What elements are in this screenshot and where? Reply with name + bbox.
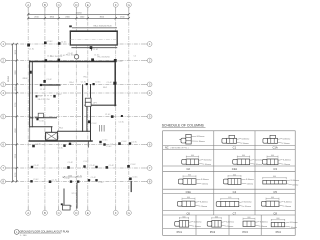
svg-text:10mmø: 10mmø	[285, 206, 292, 208]
svg-text:8-16mmø: 8-16mmø	[194, 221, 203, 223]
schedule cell PC2	[207, 216, 235, 228]
svg-text:8-16mmø: 8-16mmø	[242, 138, 251, 140]
column mark G/5	[119, 115, 125, 124]
svg-text:8-16mmø: 8-16mmø	[246, 179, 255, 181]
schedule cell C2A	[233, 155, 264, 166]
grid line G (vertical)	[128, 8, 130, 210]
beam label FB-1 350X250	[98, 57, 110, 59]
beam label 250	[47, 99, 50, 101]
svg-text:C1 4C: C1 4C	[58, 147, 64, 149]
leader dash row4	[38, 95, 53, 97]
column mark D/6a	[58, 145, 66, 150]
svg-text:8-16mmø: 8-16mmø	[200, 201, 209, 203]
step stub below bottom wall	[87, 142, 89, 148]
grid line D (vertical)	[75, 8, 77, 210]
column mark C/4	[53, 94, 62, 98]
grid line C (vertical)	[58, 8, 60, 210]
schedule caption C3A	[186, 190, 191, 194]
column mark E/5	[88, 120, 97, 125]
grid bubble 7 right	[147, 166, 152, 171]
schedule cell NC	[179, 134, 205, 144]
column mark C/1	[58, 42, 67, 45]
column mark D/2	[68, 53, 79, 59]
svg-text:600: 600	[183, 216, 186, 218]
svg-text:A: A	[27, 211, 29, 215]
porch wall bottom	[64, 205, 71, 207]
wall along grid E interior	[90, 85, 92, 142]
svg-text:C4: C4	[233, 190, 237, 194]
interior wall y117 right part	[35, 117, 56, 119]
grid bubble 3 left	[1, 82, 6, 87]
wall bottom of main block	[29, 140, 92, 142]
column mark E/6b	[103, 143, 112, 148]
bubble stems right	[145, 44, 148, 182]
grid bubble B top	[42, 2, 47, 7]
svg-text:C2A: C2A	[232, 167, 237, 171]
column mark G/6	[129, 141, 138, 144]
column mark B/2	[45, 56, 53, 62]
svg-text:21950: 21950	[8, 75, 10, 82]
grid bubble A top	[26, 2, 31, 7]
svg-text:8-16mmø: 8-16mmø	[260, 221, 269, 223]
svg-text:10mmø: 10mmø	[247, 184, 254, 186]
svg-text:8-16mmø: 8-16mmø	[283, 138, 292, 140]
svg-text:C1 4C: C1 4C	[33, 179, 39, 181]
grid line 2 (horizontal)	[6, 60, 147, 62]
svg-text:C8: C8	[273, 211, 277, 215]
svg-text:C1 4C: C1 4C	[46, 79, 52, 81]
wall left lower link	[29, 127, 31, 141]
svg-text:FB-2 350X250: FB-2 350X250	[66, 54, 78, 56]
svg-text:C1 4C: C1 4C	[109, 165, 115, 167]
svg-text:10mmø: 10mmø	[284, 164, 291, 166]
grid bubble G bottom	[126, 210, 131, 215]
svg-text:PC3: PC3	[242, 230, 248, 234]
wall left inner face	[31, 62, 33, 127]
grid bubble 3 right	[147, 82, 152, 87]
svg-text:RB-1 350X200 RCB: RB-1 350X200 RCB	[94, 26, 113, 28]
svg-text:C1 4C: C1 4C	[106, 146, 112, 148]
bubble stems bottom	[28, 206, 129, 211]
svg-text:ST-1: ST-1	[72, 193, 76, 195]
bubble stems left	[6, 44, 18, 182]
grid line A (vertical)	[27, 8, 29, 210]
grid bubble 8 right	[147, 179, 152, 184]
svg-text:C3: C3	[273, 167, 277, 171]
svg-text:C1 4C: C1 4C	[39, 121, 45, 123]
grid line B (vertical)	[44, 8, 46, 210]
interior wall x51 stub	[51, 127, 53, 133]
svg-text:8-16mmø: 8-16mmø	[284, 201, 293, 203]
svg-text:C1 4C: C1 4C	[47, 41, 53, 43]
column mark D/7	[67, 162, 73, 169]
interior wall y126	[30, 126, 52, 128]
porch wall left	[63, 189, 65, 206]
svg-text:C1 4C: C1 4C	[29, 49, 35, 51]
svg-text:FB-5: FB-5	[84, 77, 88, 79]
grid line E (vertical)	[87, 8, 89, 210]
svg-text:600: 600	[273, 176, 276, 178]
svg-text:FB-1 350X250: FB-1 350X250	[98, 57, 110, 59]
grid line 3 (horizontal)	[6, 83, 147, 85]
wall right of main block (grid F)	[114, 61, 116, 106]
svg-text:C1 4C: C1 4C	[119, 122, 125, 124]
svg-text:C1 4C: C1 4C	[83, 161, 89, 163]
svg-text:F: F	[115, 211, 117, 215]
svg-text:C7: C7	[233, 211, 237, 215]
svg-text:10mmø: 10mmø	[205, 164, 212, 166]
column mark E/7	[90, 165, 98, 168]
svg-text:C1 4C: C1 4C	[81, 82, 87, 84]
schedule caption PC1	[177, 230, 183, 234]
grid bubble G top	[126, 2, 131, 7]
column mark E/8a	[88, 177, 97, 182]
column mark E/3b	[93, 82, 102, 86]
svg-text:10mmø: 10mmø	[284, 143, 291, 145]
svg-text:8-16mmø: 8-16mmø	[197, 136, 206, 138]
grid bubble C bottom	[56, 210, 61, 215]
svg-text:FB-1 350X250: FB-1 350X250	[50, 56, 62, 58]
schedule cell C2	[182, 155, 213, 166]
svg-text:C1 4C: C1 4C	[90, 165, 96, 167]
column mark B/5	[36, 118, 45, 123]
svg-text:C1 4C: C1 4C	[91, 123, 97, 125]
schedule caption C7	[233, 211, 237, 215]
shaft box lower	[85, 102, 91, 106]
column mark A/1	[27, 44, 35, 51]
svg-text:C1 4C: C1 4C	[130, 164, 136, 166]
column mark B/8	[30, 179, 39, 182]
column mark D/6b	[69, 142, 78, 145]
svg-text:1 : 100: 1 : 100	[20, 235, 27, 237]
schedule cell C4	[223, 174, 254, 185]
svg-text:C1 4C: C1 4C	[34, 165, 40, 167]
svg-text:F: F	[115, 3, 117, 7]
svg-text:600: 600	[187, 197, 190, 199]
svg-text:10mmø: 10mmø	[256, 164, 263, 166]
svg-text:8-16mmø: 8-16mmø	[201, 179, 210, 181]
svg-text:600: 600	[248, 217, 251, 219]
schedule cell PC1	[175, 216, 203, 228]
porch wall right	[76, 183, 78, 208]
svg-text:8-16mmø: 8-16mmø	[291, 180, 300, 182]
svg-text:C1 4C: C1 4C	[98, 182, 104, 184]
bubble stems top	[28, 7, 129, 19]
wall left outer face	[29, 61, 31, 127]
svg-text:C1 4C: C1 4C	[68, 162, 74, 164]
column mark F/3	[107, 82, 117, 85]
svg-text:8-16mmø: 8-16mmø	[283, 159, 292, 161]
porch step box	[63, 205, 71, 210]
schedule cell C7	[216, 197, 252, 208]
svg-text:C1 4C: C1 4C	[56, 94, 62, 96]
svg-text:10mmø: 10mmø	[261, 226, 268, 228]
svg-text:C1 4C: C1 4C	[91, 177, 97, 179]
column mark F/7	[106, 165, 115, 169]
svg-text:C1 4C: C1 4C	[77, 175, 83, 177]
schedule cell PC3	[243, 217, 269, 228]
svg-text:10mmø: 10mmø	[291, 227, 298, 229]
column mark E/3a	[81, 82, 88, 86]
schedule cell C6	[177, 197, 208, 208]
beam label RB-1 above roof slab	[69, 25, 117, 27]
grid bubble B bottom	[42, 210, 47, 215]
wall at lift room bottom	[85, 104, 116, 106]
svg-text:C1A: C1A	[272, 146, 277, 150]
schedule caption C2	[186, 167, 190, 171]
grid bubble E bottom	[85, 210, 90, 215]
schedule caption C1	[233, 146, 237, 150]
grid line F (vertical)	[115, 8, 117, 210]
svg-text:10mmø: 10mmø	[245, 206, 252, 208]
column mark D/7b	[83, 161, 89, 168]
svg-text:A: A	[27, 3, 29, 7]
schedule caption PC3	[242, 230, 248, 234]
svg-text:FB-4: FB-4	[70, 82, 74, 84]
grid bubble A bottom	[26, 210, 31, 215]
svg-text:600: 600	[233, 174, 236, 176]
stair wall x87	[86, 106, 88, 131]
svg-text:600: 600	[191, 155, 194, 157]
schedule cell C3	[262, 155, 291, 166]
column mark E/1	[90, 46, 99, 51]
svg-text:600: 600	[188, 175, 191, 177]
schedule title	[162, 123, 206, 127]
column mark F/2	[114, 59, 123, 63]
svg-text:B: B	[44, 3, 46, 7]
grid bubble 2 left	[1, 58, 6, 63]
svg-text:FB-2 350: FB-2 350	[38, 99, 46, 101]
plan title bubble	[14, 230, 19, 235]
grid bubble E top	[85, 2, 90, 7]
schedule caption C3	[273, 167, 277, 171]
svg-text:600: 600	[242, 155, 245, 157]
column mark C/2	[58, 55, 66, 62]
small box on wall y117	[38, 113, 43, 117]
interior wall y131	[58, 130, 91, 132]
plan title text	[20, 230, 70, 236]
wall stub grid G below row 8	[130, 182, 132, 192]
svg-text:C1 4C: C1 4C	[64, 178, 70, 180]
svg-text:C5: C5	[273, 190, 277, 194]
svg-text:C1 4C: C1 4C	[61, 42, 67, 44]
svg-text:C1 4C: C1 4C	[102, 140, 108, 142]
schedule cell C1	[222, 135, 250, 145]
grid bubble 1 left	[1, 42, 6, 47]
grid bubble D bottom	[74, 210, 79, 215]
svg-text:8-16mmø: 8-16mmø	[204, 159, 213, 161]
svg-text:E: E	[87, 211, 89, 215]
schedule caption C5	[273, 190, 277, 194]
schedule caption C6	[186, 211, 190, 215]
svg-text:600: 600	[277, 218, 280, 220]
schedule caption NC	[165, 146, 189, 149]
svg-text:C1 4C: C1 4C	[72, 142, 78, 144]
column mark E/8b	[95, 179, 104, 184]
beam label FB-2	[59, 128, 63, 130]
svg-text:10mmø: 10mmø	[199, 141, 206, 143]
left segment dimension line	[15, 43, 18, 183]
svg-text:C1 4C: C1 4C	[105, 114, 111, 116]
svg-text:FB-2: FB-2	[103, 87, 107, 89]
svg-text:C2: C2	[23, 78, 25, 80]
svg-text:C1: C1	[111, 144, 113, 146]
svg-text:NC: NC	[165, 146, 169, 149]
left overall dimension line	[8, 43, 14, 183]
beam label FB-2	[103, 87, 107, 89]
grid bubble 5 right	[147, 114, 152, 119]
grid bubble 8 left	[1, 179, 6, 184]
svg-text:PC1: PC1	[177, 230, 183, 234]
wall top of main block	[30, 61, 116, 63]
svg-text:B: B	[44, 211, 46, 215]
schedule caption PC4	[276, 230, 282, 234]
grid line 6 (horizontal)	[6, 144, 147, 146]
column mark E/6	[99, 140, 108, 144]
svg-text:C1 4C: C1 4C	[95, 82, 101, 84]
grid bubble 7 left	[1, 166, 6, 171]
svg-text:C3A: C3A	[186, 190, 191, 194]
schedule caption C1A	[272, 146, 277, 150]
svg-text:600: 600	[271, 155, 274, 157]
grid line 8 (horizontal)	[6, 181, 147, 183]
grid bubble F bottom	[113, 210, 118, 215]
svg-text:C1 4C: C1 4C	[93, 49, 99, 51]
schedule caption C2A	[232, 167, 237, 171]
svg-text:8-16mmø: 8-16mmø	[226, 221, 235, 223]
grid line 1 (horizontal)	[6, 43, 147, 45]
svg-text:C1 4C: C1 4C	[132, 141, 138, 143]
beam label LIFT	[93, 103, 98, 105]
svg-text:10mmø: 10mmø	[243, 143, 250, 145]
column mark A/3	[22, 71, 31, 80]
grid bubble 4 left	[1, 91, 6, 96]
svg-text:10mmø: 10mmø	[195, 226, 202, 228]
grid line 7 (horizontal)	[6, 167, 147, 169]
svg-text:10mmø: 10mmø	[202, 184, 209, 186]
interior wall x82	[82, 85, 84, 131]
schedule caption C4	[233, 190, 237, 194]
svg-text:PC2: PC2	[210, 230, 216, 234]
grid bubble 5 left	[1, 114, 6, 119]
svg-text:10mmø: 10mmø	[292, 184, 299, 186]
grid bubble F top	[113, 2, 118, 7]
schedule caption PC2	[210, 230, 216, 234]
beam label FB-5	[84, 77, 88, 79]
column mark A/4	[36, 95, 43, 97]
beam label FB-1 350X250	[50, 56, 62, 58]
grid bubble 6 right	[147, 142, 152, 147]
top overall dimension line	[27, 12, 130, 15]
column mark B/3	[43, 79, 52, 83]
beam label C2	[134, 56, 136, 58]
grid bubble 4 right	[147, 91, 152, 96]
svg-text:8-16mmø: 8-16mmø	[244, 202, 253, 204]
svg-text:C6: C6	[186, 211, 190, 215]
column mark F/5	[105, 114, 114, 118]
svg-text:C1 4C: C1 4C	[40, 89, 46, 91]
column mark B/1	[44, 41, 53, 44]
svg-text:C1 4C: C1 4C	[36, 143, 42, 145]
door step marks near grid E bottom wall	[100, 125, 105, 132]
svg-text:C1 4C: C1 4C	[52, 179, 58, 181]
grid line 5 (horizontal)	[6, 116, 147, 118]
interior wall row 3	[41, 84, 60, 86]
svg-text:PC4: PC4	[276, 230, 282, 234]
svg-text:8-16mmø: 8-16mmø	[290, 222, 299, 224]
svg-text:C1 4C: C1 4C	[117, 61, 123, 63]
column mark E/2	[91, 54, 100, 61]
grid bubble C top	[56, 2, 61, 7]
svg-text:C1: C1	[233, 146, 237, 150]
grid bubble 2 right	[147, 58, 152, 63]
column mark J/3	[40, 84, 46, 91]
porch dimension line	[62, 175, 82, 178]
svg-text:10mmø: 10mmø	[201, 206, 208, 208]
stub below column E/1	[90, 48, 92, 50]
schedule cell C5	[263, 176, 300, 186]
beam label FB-2 350X250	[66, 54, 78, 56]
beam label FB-2 350	[38, 99, 46, 101]
column mark G/8	[129, 176, 138, 180]
column mark C/8	[49, 179, 58, 183]
column mark G/7	[127, 164, 136, 168]
porch side tick	[61, 203, 63, 205]
beam label C1	[111, 144, 113, 146]
grid bubble D top	[74, 2, 79, 7]
svg-text:C1 4C: C1 4C	[107, 82, 113, 84]
svg-text:C2: C2	[186, 167, 190, 171]
schedule cell C1A	[263, 135, 291, 145]
svg-text:16150: 16150	[75, 12, 82, 14]
beam label ST-1	[72, 193, 76, 195]
stair box with cross	[46, 132, 58, 140]
schedule cell C8	[261, 197, 292, 208]
top segment dimension line	[27, 17, 130, 20]
svg-text:C1 4C: C1 4C	[132, 176, 138, 178]
svg-text:C1 4C: C1 4C	[37, 95, 43, 97]
schedule caption C8	[273, 211, 277, 215]
schedule cell C3A	[178, 175, 209, 186]
svg-text:FB-2: FB-2	[59, 128, 63, 130]
column mark D/8b	[77, 175, 83, 182]
column mark B/6	[32, 143, 41, 147]
beam label FB-4	[70, 82, 74, 84]
svg-text:600: 600	[228, 197, 231, 199]
svg-text:600: 600	[271, 197, 274, 199]
column mark F/6	[118, 141, 127, 145]
grid bubble 6 left	[1, 142, 6, 147]
svg-text:C1 4C: C1 4C	[121, 141, 127, 143]
grid bubble 1 right	[147, 42, 152, 47]
svg-text:C2: C2	[134, 56, 136, 58]
column mark B/7	[31, 165, 40, 168]
shaft box upper	[85, 98, 91, 102]
schedule cell PC4	[271, 218, 298, 229]
interior wall y117	[30, 117, 33, 119]
grid line 4 (horizontal)	[6, 92, 147, 94]
column mark D/8a	[64, 178, 72, 183]
svg-text:600: 600	[215, 216, 218, 218]
beam label C2	[23, 78, 25, 80]
schedule table frame	[163, 131, 296, 236]
svg-text:SCHEDULE OF COLUMNS: SCHEDULE OF COLUMNS	[162, 123, 205, 127]
svg-text:E: E	[87, 3, 89, 7]
svg-text:( SEE SCHED OF FTG. ): ( SEE SCHED OF FTG. )	[171, 147, 189, 149]
svg-text:250: 250	[47, 99, 50, 101]
svg-text:10mmø: 10mmø	[227, 226, 234, 228]
upper roof slab outline	[70, 31, 118, 48]
